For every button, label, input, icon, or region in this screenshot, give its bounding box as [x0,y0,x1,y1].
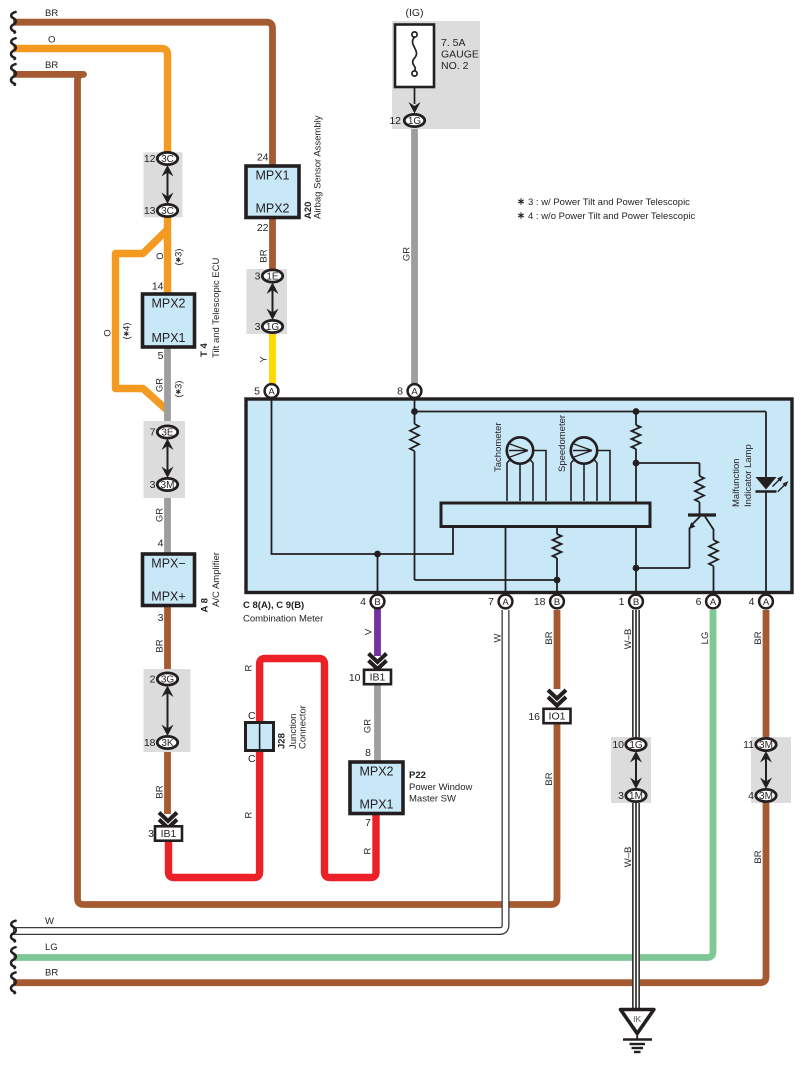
svg-text:14: 14 [152,281,164,293]
svg-text:O: O [155,252,166,259]
svg-text:Master SW: Master SW [409,794,456,805]
svg-text:3M: 3M [759,791,773,802]
svg-text:4: 4 [360,596,366,608]
svg-text:R: R [363,847,374,854]
svg-text:3: 3 [618,790,624,802]
svg-text:A 8: A 8 [200,598,211,612]
svg-text:16: 16 [528,711,540,723]
svg-text:C 8(A), C 9(B): C 8(A), C 9(B) [243,600,304,611]
svg-text:NO. 2: NO. 2 [441,60,469,72]
svg-text:GR: GR [155,508,166,522]
svg-text:BR: BR [544,772,555,785]
svg-text:Y: Y [259,356,270,363]
svg-text:4: 4 [748,790,754,802]
svg-text:24: 24 [257,152,269,164]
svg-text:BR: BR [753,631,764,644]
svg-text:Power Window: Power Window [409,782,472,793]
svg-text:2: 2 [150,674,156,686]
svg-text:B: B [554,597,560,608]
svg-text:A: A [763,597,770,608]
svg-text:R: R [244,811,255,818]
svg-text:P22: P22 [409,770,426,781]
svg-text:6: 6 [696,596,702,608]
svg-text:3: 3 [158,612,164,624]
svg-text:3: 3 [255,271,261,283]
svg-text:Tachometer: Tachometer [493,422,504,472]
svg-text:5: 5 [254,386,260,398]
svg-text:LG: LG [45,942,58,953]
svg-text:T 4: T 4 [199,343,210,357]
svg-text:22: 22 [257,222,269,234]
svg-text:A: A [268,386,275,397]
svg-text:IK: IK [633,1014,641,1024]
svg-text:18: 18 [534,596,546,608]
svg-text:8: 8 [365,747,371,759]
svg-text:W–B: W–B [623,847,634,868]
svg-text:3: 3 [150,479,156,491]
svg-text:1E: 1E [266,272,279,283]
svg-text:O: O [48,34,55,45]
svg-text:8: 8 [397,386,403,398]
svg-text:7. 5A: 7. 5A [441,37,466,49]
svg-text:5: 5 [158,350,164,362]
svg-text:3M: 3M [161,480,175,491]
svg-text:1: 1 [619,596,625,608]
svg-text:18: 18 [144,737,156,749]
svg-text:MPX1: MPX1 [151,331,185,345]
svg-text:GAUGE: GAUGE [441,49,479,61]
svg-text:R: R [244,664,255,671]
svg-text:( 3): ( 3) [174,381,185,398]
svg-text:4 : w/o Power Tilt and Power T: 4 : w/o Power Tilt and Power Telescopic [528,211,695,222]
svg-text:GR: GR [155,378,166,392]
svg-text:3C: 3C [161,154,174,165]
svg-text:3 : w/ Power Tilt and Power Te: 3 : w/ Power Tilt and Power Telescopic [528,197,690,208]
svg-text:A: A [411,386,418,397]
svg-text:12: 12 [389,115,401,127]
svg-text:Airbag Sensor Assembly: Airbag Sensor Assembly [313,115,324,219]
svg-text:O: O [103,329,114,336]
svg-text:1G: 1G [629,740,643,751]
svg-text:MPX1: MPX1 [359,798,393,812]
svg-text:3E: 3E [161,428,174,439]
svg-text:GR: GR [402,247,413,261]
svg-text:MPX2: MPX2 [255,202,289,216]
svg-text:7: 7 [365,817,371,829]
svg-text:A/C Amplifier: A/C Amplifier [211,552,222,607]
svg-text:BR: BR [45,968,58,979]
svg-text:3K: 3K [161,738,174,749]
svg-text:10: 10 [612,739,624,751]
svg-text:BR: BR [45,8,58,19]
svg-text:Indicator Lamp: Indicator Lamp [743,444,754,507]
svg-text:GR: GR [363,719,374,733]
svg-text:( 4): ( 4) [122,323,133,340]
svg-text:13: 13 [144,205,156,217]
svg-text:7: 7 [150,427,156,439]
svg-text:BR: BR [544,631,555,644]
svg-text:BR: BR [155,639,166,652]
svg-text:MPX1: MPX1 [255,169,289,183]
svg-text:MPX+: MPX+ [151,590,185,604]
svg-text:MPX2: MPX2 [359,765,393,779]
svg-text:3C: 3C [161,206,174,217]
svg-text:V: V [364,628,375,635]
svg-text:4: 4 [749,596,755,608]
svg-text:W–B: W–B [623,629,634,650]
svg-text:3G: 3G [161,675,175,686]
svg-text:3M: 3M [759,740,773,751]
svg-text:(IG): (IG) [405,7,423,19]
svg-text:MPX−: MPX− [151,557,185,571]
svg-text:A: A [502,597,509,608]
svg-text:Malfunction: Malfunction [731,458,742,507]
svg-text:Combination Meter: Combination Meter [243,614,323,625]
svg-text:4: 4 [158,538,164,550]
svg-text:IB1: IB1 [161,828,177,840]
svg-text:BR: BR [259,249,270,262]
svg-text:1G: 1G [408,116,422,127]
svg-text:Connector: Connector [298,705,309,749]
svg-text:W: W [493,633,504,642]
svg-text:3: 3 [148,828,154,840]
svg-text:BR: BR [155,785,166,798]
svg-text:A: A [710,597,717,608]
svg-text:IB1: IB1 [370,672,386,684]
svg-text:BR: BR [753,850,764,863]
svg-text:Speedometer: Speedometer [557,415,568,472]
svg-text:MPX2: MPX2 [151,297,185,311]
svg-text:C: C [248,710,256,722]
svg-text:BR: BR [45,60,58,71]
svg-text:W: W [45,916,54,927]
svg-text:11: 11 [743,739,754,751]
svg-text:C: C [248,753,256,765]
svg-text:LG: LG [700,632,711,645]
svg-text:Tilt and Telescopic ECU: Tilt and Telescopic ECU [211,258,222,358]
svg-text:1G: 1G [266,322,280,333]
svg-text:B: B [374,597,380,608]
svg-text:7: 7 [488,596,494,608]
svg-text:( 3): ( 3) [174,249,185,266]
svg-text:10: 10 [349,672,361,684]
svg-text:12: 12 [144,153,156,165]
svg-text:3: 3 [255,321,261,333]
svg-text:B: B [633,597,639,608]
svg-text:IO1: IO1 [549,711,566,723]
svg-text:1M: 1M [629,791,643,802]
svg-text:J28: J28 [277,733,288,749]
